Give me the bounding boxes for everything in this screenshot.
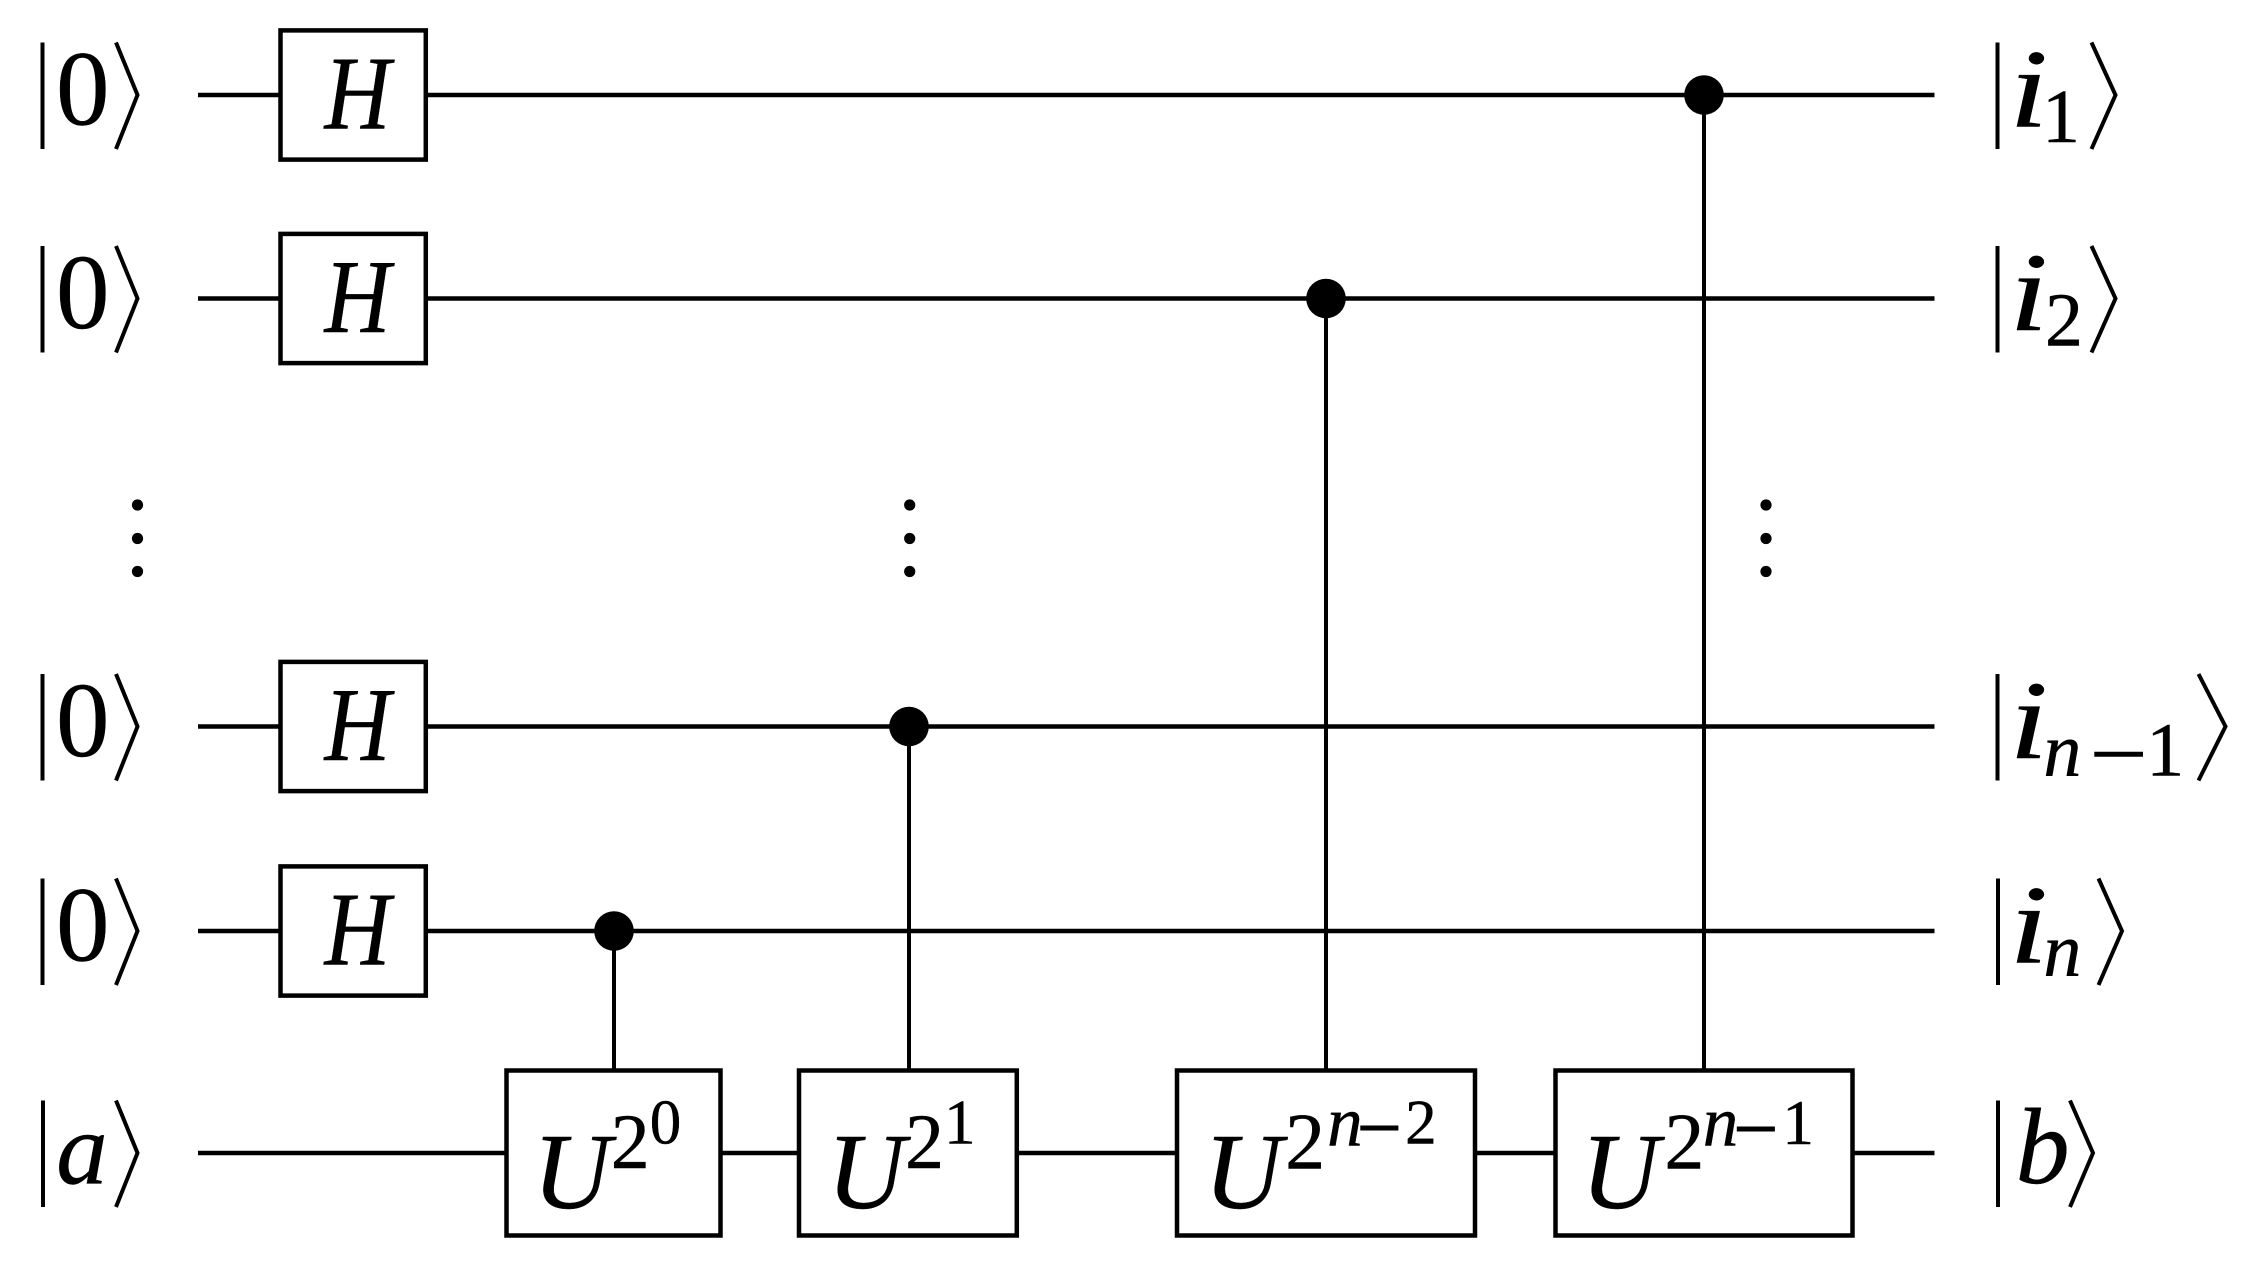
wire qn left stub <box>198 929 280 934</box>
ket |a> target <box>43 1093 138 1208</box>
wire q2 main <box>426 296 1935 301</box>
wire q1 main <box>426 93 1935 98</box>
ket |i1> output q1 <box>1998 28 2116 159</box>
svg-text:0: 0 <box>56 234 110 352</box>
control dot q(n-1) <box>889 707 929 747</box>
controlled-U gate U^2^(n-2) box <box>1177 1071 1475 1236</box>
control dot qn <box>594 911 634 951</box>
svg-text:i: i <box>2009 231 2048 355</box>
svg-text:H: H <box>323 871 395 988</box>
wire q2 left stub <box>198 296 280 301</box>
svg-text:2: 2 <box>1664 1099 1704 1187</box>
ket |i(n-1)> output q(n-1) <box>1998 659 2226 792</box>
wire q1 left stub <box>198 93 280 98</box>
wire qn main <box>426 929 1935 934</box>
wire target a-b segment 2 <box>719 1151 801 1156</box>
control line from q1 to U4 <box>1702 95 1706 1072</box>
ellipsis middle column <box>904 499 915 510</box>
ellipsis right column <box>1760 499 1771 510</box>
wire target a-b segment 3 <box>1015 1151 1179 1156</box>
U^2^(n-1) label exponent minus <box>1737 1127 1775 1132</box>
svg-text:1: 1 <box>1782 1088 1814 1158</box>
wire q(n-1) left stub <box>198 724 280 729</box>
controlled-U gate U^2^0 box <box>507 1071 721 1236</box>
control line from q2 to U3 <box>1324 299 1328 1073</box>
wire target a-b segment 4 <box>1471 1151 1557 1156</box>
svg-text:0: 0 <box>56 31 110 149</box>
svg-text:2: 2 <box>2045 279 2083 363</box>
U^2^(n-2) label exponent minus <box>1360 1126 1398 1131</box>
ket |in> output qn <box>1998 864 2122 993</box>
H gate box q1 <box>281 30 426 159</box>
svg-text:a: a <box>56 1093 108 1207</box>
svg-text:0: 0 <box>56 867 110 985</box>
H gate box q2 <box>281 234 426 363</box>
ket |0> qn <box>43 867 138 986</box>
wire q(n-1) main <box>426 724 1935 729</box>
ket |i2> output q2 <box>1998 231 2116 362</box>
svg-text:2: 2 <box>1405 1088 1437 1158</box>
controlled-U gate U^2^1 box <box>799 1071 1017 1236</box>
svg-text:U: U <box>1204 1113 1288 1232</box>
svg-text:2: 2 <box>1285 1099 1325 1187</box>
controlled-U gate U^2^(n-1) box <box>1556 1071 1853 1236</box>
svg-text:n: n <box>2043 709 2081 793</box>
svg-text:b: b <box>2016 1088 2070 1207</box>
svg-text:n: n <box>2043 909 2081 993</box>
ket |0> q(n-1) <box>43 662 138 781</box>
svg-text:H: H <box>323 35 395 152</box>
ellipsis left column <box>132 499 143 510</box>
ket |0> q1 <box>43 31 138 150</box>
svg-text:1: 1 <box>2042 75 2080 159</box>
control dot q2 <box>1306 279 1346 319</box>
control line from q(n-1) to U2 <box>907 727 911 1073</box>
H gate box q(n-1) <box>281 662 426 791</box>
ket |b> output target <box>1998 1088 2093 1207</box>
control dot q1 <box>1684 75 1724 115</box>
svg-text:i: i <box>2009 864 2048 988</box>
svg-text:H: H <box>323 666 395 783</box>
svg-text:H: H <box>323 238 395 355</box>
svg-text:U: U <box>1581 1113 1665 1232</box>
ket |0> q2 <box>43 234 138 353</box>
wire target a-b segment 5 <box>1850 1151 1935 1156</box>
svg-text:1: 1 <box>2146 709 2184 793</box>
wire target a-b segment 1 <box>198 1151 508 1156</box>
svg-text:n: n <box>1703 1084 1739 1162</box>
svg-text:n: n <box>1327 1084 1363 1162</box>
H gate box qn <box>281 866 426 995</box>
svg-text:0: 0 <box>56 662 110 780</box>
svg-text:i: i <box>2009 659 2048 783</box>
control line from qn to U1 <box>612 931 616 1072</box>
